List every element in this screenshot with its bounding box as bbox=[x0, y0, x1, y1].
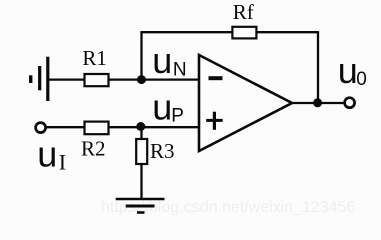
svg-text:N: N bbox=[173, 59, 187, 80]
svg-text:u: u bbox=[152, 40, 172, 81]
svg-text:u: u bbox=[37, 133, 57, 174]
resistor Rf bbox=[232, 27, 256, 39]
svg-text:0: 0 bbox=[356, 69, 367, 90]
label u_P bbox=[152, 87, 184, 128]
op-amp plus sign bbox=[206, 112, 223, 130]
wire R1 to node N bbox=[109, 78, 200, 80]
svg-text:I: I bbox=[59, 149, 66, 174]
wire ground to R1 bbox=[48, 78, 84, 80]
svg-text:R2: R2 bbox=[81, 136, 106, 160]
feedback wire: top right segment bbox=[257, 31, 319, 33]
op-amp U1 bbox=[199, 55, 292, 151]
node P junction dot bbox=[136, 122, 145, 131]
wire op-amp output bbox=[292, 102, 344, 104]
ground (bottom, R3) bbox=[116, 199, 165, 213]
wire node P down to R3 bbox=[140, 127, 142, 139]
resistor R3 bbox=[136, 139, 147, 164]
op-amp minus sign bbox=[209, 76, 223, 80]
input terminal (u_I) bbox=[36, 123, 46, 133]
svg-text:P: P bbox=[171, 105, 184, 126]
resistor R1 bbox=[85, 74, 109, 86]
node N junction dot bbox=[137, 75, 146, 84]
wire R2 to node P bbox=[109, 126, 200, 128]
svg-text:R3: R3 bbox=[150, 139, 175, 163]
svg-text:u: u bbox=[152, 87, 172, 128]
feedback wire: down to output node bbox=[317, 31, 319, 103]
output node junction dot bbox=[313, 98, 322, 107]
feedback wire: node N up bbox=[140, 32, 142, 79]
label u_N bbox=[152, 40, 186, 81]
label u_0 bbox=[338, 50, 367, 91]
svg-text:u: u bbox=[338, 50, 358, 91]
wire terminal to R2 bbox=[46, 126, 84, 128]
resistor R2 bbox=[85, 122, 109, 135]
feedback wire: top left segment bbox=[140, 31, 232, 33]
output terminal bbox=[345, 98, 355, 108]
label u_I bbox=[37, 133, 66, 174]
wire R3 to ground bbox=[140, 164, 142, 199]
svg-text:R1: R1 bbox=[82, 46, 107, 70]
svg-text:Rf: Rf bbox=[233, 0, 254, 24]
ground (left input reference) bbox=[31, 57, 48, 101]
